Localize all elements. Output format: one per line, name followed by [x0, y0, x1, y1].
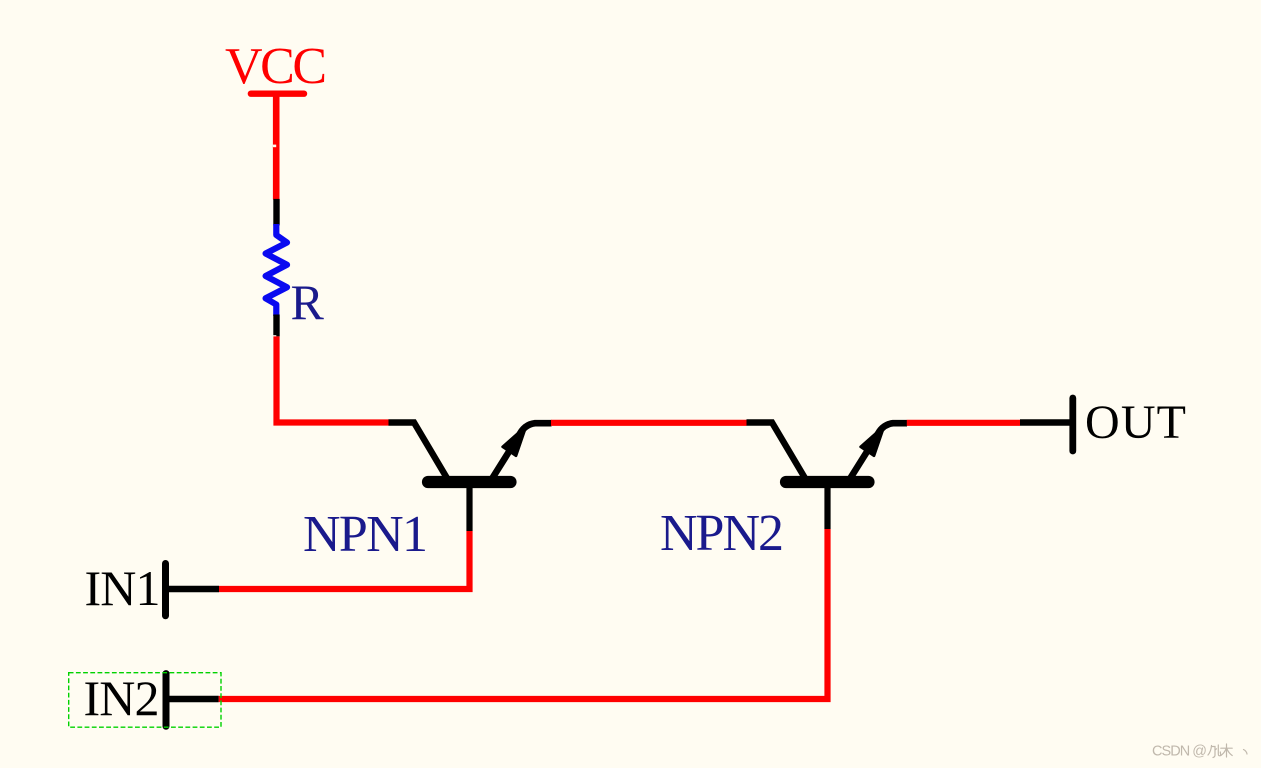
wire NPN1 emitter to NPN2 collector: [551, 420, 747, 426]
wire NPN2 emitter to OUT: [907, 420, 1020, 426]
port OUT: [1020, 398, 1073, 451]
port IN1: [166, 564, 220, 616]
svg-text:R: R: [291, 274, 325, 330]
wire NPN2 base to IN2: [219, 529, 828, 699]
svg-text:NPN1: NPN1: [303, 506, 428, 563]
svg-text:OUT: OUT: [1085, 396, 1186, 449]
transistor NPN2: [747, 423, 908, 530]
svg-text:CSDN @: CSDN @: [1152, 744, 1207, 760]
wire VCC to resistor: [273, 145, 276, 200]
resistor R: [266, 199, 287, 338]
selection box around IN2: [69, 673, 221, 728]
power symbol VCC: [251, 94, 304, 148]
svg-text:NPN2: NPN2: [660, 505, 784, 562]
wire NPN1 base to IN1: [219, 531, 470, 589]
svg-text:VCC: VCC: [225, 38, 327, 95]
svg-text:IN2: IN2: [84, 670, 160, 726]
wire resistor to NPN1 collector: [277, 336, 389, 422]
svg-text:IN1: IN1: [85, 560, 161, 616]
transistor NPN1: [389, 423, 552, 532]
watermark CSDN: [1152, 744, 1247, 760]
port IN2: [166, 674, 219, 727]
